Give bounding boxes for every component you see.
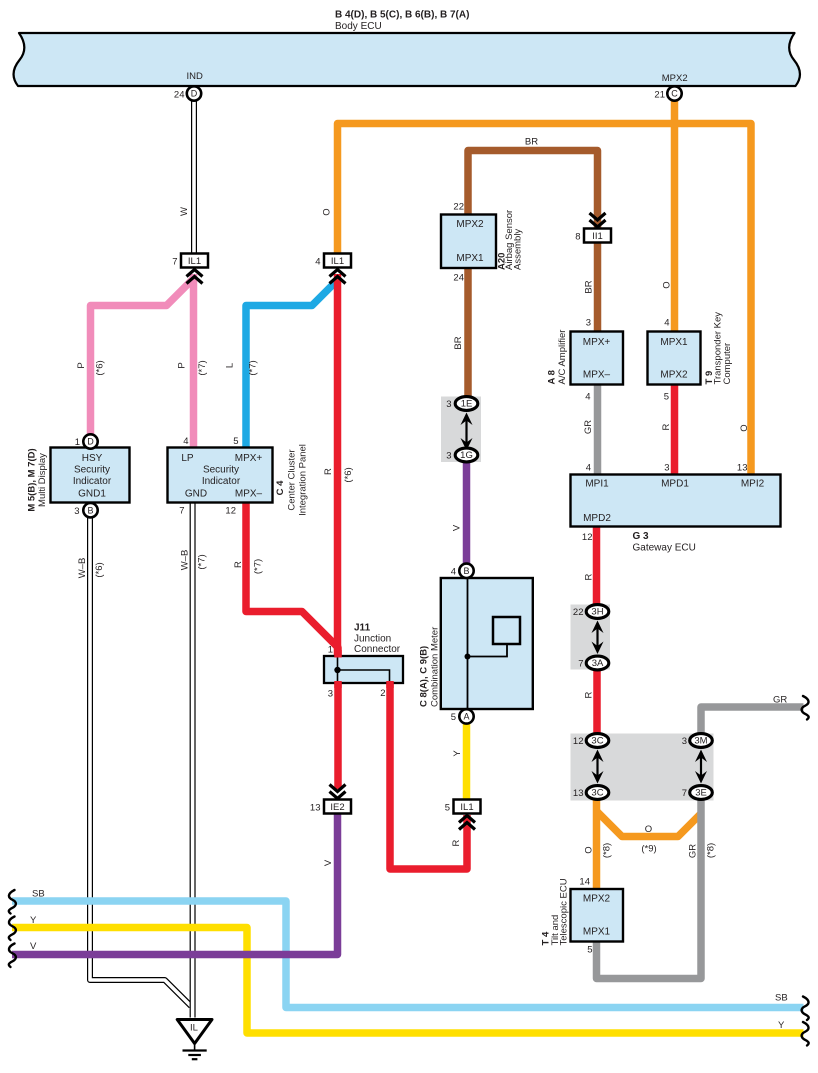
svg-text:5: 5 xyxy=(587,945,592,956)
svg-text:3E: 3E xyxy=(695,788,707,799)
svg-text:3: 3 xyxy=(446,399,451,410)
svg-text:BR: BR xyxy=(453,336,464,349)
svg-text:5: 5 xyxy=(451,712,456,723)
connector 3H pin 22 xyxy=(586,605,609,619)
svg-text:IL: IL xyxy=(190,1023,198,1034)
arrow between 3C and 3C xyxy=(596,756,598,778)
wire SB (left break across to bottom right break) xyxy=(12,901,804,1008)
svg-text:D: D xyxy=(87,437,94,447)
svg-text:J11: J11 xyxy=(354,623,371,634)
wire Y (left break across to bottom right break) xyxy=(12,928,804,1034)
svg-text:(*7): (*7) xyxy=(253,559,264,574)
wire R (IL1 to Junction Connector J11 pin 1) xyxy=(334,274,342,657)
wire V (IE2 down and across to left break) xyxy=(12,814,338,955)
svg-text:MPX+: MPX+ xyxy=(235,453,263,464)
svg-text:Security: Security xyxy=(203,465,239,476)
svg-text:21: 21 xyxy=(654,90,665,101)
svg-text:D: D xyxy=(191,89,198,99)
svg-text:SB: SB xyxy=(32,889,45,900)
wire O (branch to IL1 and Gateway ECU MPI2) xyxy=(338,124,752,475)
wire break SB right xyxy=(802,997,809,1021)
svg-text:A: A xyxy=(463,712,469,722)
svg-text:Junction: Junction xyxy=(354,634,391,645)
svg-text:R: R xyxy=(323,468,334,475)
wire R (Center Cluster MPX- to J11 pin 1) xyxy=(246,503,338,658)
component T 9 Transponder Key Computer xyxy=(648,332,701,385)
wire break GR right xyxy=(802,696,809,720)
svg-text:HSY: HSY xyxy=(82,453,103,464)
svg-text:R: R xyxy=(584,691,595,698)
pin 4 (B) of Combination Meter xyxy=(459,564,473,578)
svg-text:Combination Meter: Combination Meter xyxy=(430,627,441,707)
wire O (Body ECU MPX2 down to Transponder Key Computer) xyxy=(671,100,679,332)
svg-text:MPX2: MPX2 xyxy=(660,370,688,381)
gray connector block 3H/3A background xyxy=(571,605,611,670)
wire BR (Airbag Sensor MPX1 to connector 1E) xyxy=(464,268,472,398)
svg-text:II1: II1 xyxy=(592,231,603,242)
svg-text:3: 3 xyxy=(682,736,687,747)
gray connector block 1E/1G background xyxy=(441,397,481,463)
svg-text:GND1: GND1 xyxy=(78,489,106,500)
svg-text:Computer: Computer xyxy=(722,343,733,385)
svg-text:MPX2: MPX2 xyxy=(662,73,688,84)
wire R (3A to 3C) xyxy=(593,670,601,735)
svg-text:(*9): (*9) xyxy=(641,844,656,855)
svg-text:12: 12 xyxy=(225,506,236,517)
svg-text:22: 22 xyxy=(453,202,464,213)
svg-text:8: 8 xyxy=(575,232,580,243)
svg-text:Center Cluster: Center Cluster xyxy=(287,449,298,510)
svg-text:MPD2: MPD2 xyxy=(583,513,611,524)
svg-text:3M: 3M xyxy=(694,736,707,747)
svg-text:Gateway ECU: Gateway ECU xyxy=(633,543,696,554)
svg-text:L: L xyxy=(225,363,236,368)
svg-text:13: 13 xyxy=(573,788,584,799)
svg-text:Y: Y xyxy=(30,915,37,926)
svg-text:7: 7 xyxy=(682,788,687,799)
svg-text:GR: GR xyxy=(688,844,699,858)
svg-text:14: 14 xyxy=(579,877,590,888)
svg-text:IL1: IL1 xyxy=(188,256,201,267)
wire BR (Airbag Sensor MPX2 loop to II1) xyxy=(468,151,598,230)
svg-text:C 8(A), C 9(B): C 8(A), C 9(B) xyxy=(419,646,430,707)
svg-text:Integration Panel: Integration Panel xyxy=(298,444,309,516)
wire R (J11 pin 2 loop to IL1 below Combination Meter) xyxy=(390,682,467,869)
svg-text:R: R xyxy=(584,573,595,580)
component G 3 Gateway ECU xyxy=(571,475,781,527)
svg-text:Multi Display: Multi Display xyxy=(37,453,48,507)
connector 3M pin 3 xyxy=(690,734,713,748)
svg-text:(*6): (*6) xyxy=(95,360,106,375)
svg-text:LP: LP xyxy=(181,453,194,464)
component C 4 Center Cluster Integration Panel Security Indicator xyxy=(168,448,273,503)
svg-text:GR: GR xyxy=(773,695,787,706)
svg-text:1: 1 xyxy=(75,437,80,448)
component M 5(B) M 7(D) Multi Display Security Indicator xyxy=(51,448,130,503)
connector 1G pin 3 xyxy=(455,448,478,462)
svg-text:13: 13 xyxy=(310,803,321,814)
svg-text:Connector: Connector xyxy=(354,644,401,655)
arrow between 3H and 3A xyxy=(596,627,598,649)
svg-text:R: R xyxy=(233,561,244,568)
wire break V left xyxy=(9,944,16,968)
svg-text:(*8): (*8) xyxy=(706,843,717,858)
internal lamp block of Combination Meter xyxy=(493,617,520,644)
svg-text:Y: Y xyxy=(452,750,463,757)
wire GR (3E down and loop to Tilt ECU MPX1) xyxy=(597,799,702,978)
svg-text:5: 5 xyxy=(664,392,669,403)
svg-text:7: 7 xyxy=(172,257,177,268)
svg-text:V: V xyxy=(323,859,334,866)
svg-text:GR: GR xyxy=(583,420,594,434)
svg-text:3: 3 xyxy=(328,689,333,700)
svg-text:M 5(B), M 7(D): M 5(B), M 7(D) xyxy=(27,448,38,511)
component C 8(A) C 9(B) Combination Meter xyxy=(441,578,533,709)
svg-text:O: O xyxy=(645,824,652,835)
wire L (IL1 to Center Cluster MPX+) xyxy=(246,280,338,448)
svg-text:MPX1: MPX1 xyxy=(583,927,611,938)
svg-text:(*7): (*7) xyxy=(197,360,208,375)
svg-text:(*7): (*7) xyxy=(197,554,208,569)
svg-text:MPD1: MPD1 xyxy=(661,479,689,490)
svg-text:BR: BR xyxy=(525,137,538,148)
wire W-B (Center Cluster GND to ground IL) xyxy=(190,503,196,1018)
svg-text:7: 7 xyxy=(179,506,184,517)
svg-text:3C: 3C xyxy=(591,788,603,799)
svg-text:22: 22 xyxy=(573,607,584,618)
wire GR (right break to 3M) xyxy=(701,707,804,734)
connector 3C pin 12 xyxy=(586,734,609,748)
component T 4 Tilt and Telescopic ECU xyxy=(571,889,624,942)
connector 3C pin 13 xyxy=(586,786,609,800)
svg-text:24: 24 xyxy=(174,90,185,101)
svg-text:Telescopic ECU: Telescopic ECU xyxy=(559,878,570,945)
svg-text:4: 4 xyxy=(451,567,456,578)
svg-text:O: O xyxy=(322,208,333,215)
svg-text:W: W xyxy=(179,207,190,216)
svg-text:1G: 1G xyxy=(460,450,473,461)
svg-text:3: 3 xyxy=(74,506,79,517)
svg-text:3C: 3C xyxy=(591,736,603,747)
wire stub R at J11 pin 1 xyxy=(334,650,342,658)
svg-text:3A: 3A xyxy=(592,658,604,669)
svg-text:Security: Security xyxy=(74,465,110,476)
svg-text:MPX–: MPX– xyxy=(583,370,611,381)
wire GR (A/C Amplifier MPX- to Gateway ECU MPI1) xyxy=(594,385,602,475)
wire O (*9) (alternate link 3C to 3E) xyxy=(597,812,701,837)
pin 5 (A) of Combination Meter xyxy=(459,709,473,723)
svg-text:W–B: W–B xyxy=(180,550,191,571)
svg-text:13: 13 xyxy=(737,463,748,474)
svg-text:3: 3 xyxy=(664,463,669,474)
svg-text:A 8: A 8 xyxy=(547,370,558,384)
component A 8 A/C Amplifier xyxy=(571,332,624,385)
svg-text:4: 4 xyxy=(585,392,590,403)
wire break SB left xyxy=(9,890,16,914)
svg-text:Y: Y xyxy=(778,1020,785,1031)
connector 1E pin 3 xyxy=(455,397,478,411)
svg-text:O: O xyxy=(584,846,595,853)
svg-text:2: 2 xyxy=(380,688,385,699)
svg-text:B 4(D), B 5(C), B 6(B), B 7(A): B 4(D), B 5(C), B 6(B), B 7(A) xyxy=(335,10,469,21)
svg-text:(*8): (*8) xyxy=(602,843,613,858)
svg-text:MPX2: MPX2 xyxy=(456,219,484,230)
svg-text:BR: BR xyxy=(584,280,595,293)
ground IL xyxy=(177,1020,212,1044)
svg-text:MPX2: MPX2 xyxy=(583,894,611,905)
wire stub R at J11 pin 3 xyxy=(334,681,342,688)
svg-text:P: P xyxy=(76,362,87,368)
svg-text:1: 1 xyxy=(328,645,333,656)
connector 4 IL1 xyxy=(330,270,346,277)
arrow between 1E and 1G xyxy=(465,419,467,445)
svg-text:12: 12 xyxy=(573,736,584,747)
svg-text:MPX–: MPX– xyxy=(235,489,263,500)
svg-text:3H: 3H xyxy=(591,607,603,618)
arrow between 3M and 3E xyxy=(700,756,702,778)
pin 3 (B) of Multi Display xyxy=(83,503,97,517)
svg-text:3: 3 xyxy=(586,318,591,329)
svg-text:Body ECU: Body ECU xyxy=(335,21,382,32)
svg-text:R: R xyxy=(451,839,462,846)
wire P (IL1 to Security Indicator pin 1) xyxy=(91,277,196,435)
wire W (Body ECU IND to connector IL1) xyxy=(191,99,197,254)
svg-text:7: 7 xyxy=(578,659,583,670)
svg-text:A/C Amplifier: A/C Amplifier xyxy=(557,330,568,385)
svg-text:IL1: IL1 xyxy=(331,256,344,267)
svg-text:P: P xyxy=(177,362,188,368)
wire Y (Combination Meter pin 5 to IL1) xyxy=(463,724,471,800)
wire R (Gateway ECU MPD2 to 3H) xyxy=(593,527,601,606)
svg-text:MPX+: MPX+ xyxy=(583,337,611,348)
svg-text:(*6): (*6) xyxy=(94,562,105,577)
svg-text:4: 4 xyxy=(183,436,188,447)
svg-text:4: 4 xyxy=(586,463,591,474)
svg-text:GND: GND xyxy=(185,489,207,500)
connector 7 IL1 xyxy=(187,270,203,277)
svg-text:R: R xyxy=(661,423,672,430)
svg-text:G 3: G 3 xyxy=(633,531,650,542)
svg-text:IL1: IL1 xyxy=(460,802,473,813)
svg-text:Indicator: Indicator xyxy=(202,476,241,487)
svg-text:24: 24 xyxy=(453,273,464,284)
svg-text:MPI2: MPI2 xyxy=(741,479,765,490)
svg-text:O: O xyxy=(662,281,673,288)
svg-text:1E: 1E xyxy=(461,399,473,410)
gray connector block 3C/3M background xyxy=(571,734,714,801)
component A20 Airbag Sensor Assembly xyxy=(441,215,496,269)
svg-text:3: 3 xyxy=(446,451,451,462)
svg-text:Assembly: Assembly xyxy=(513,229,524,270)
wire R (J11 pin 3 to IE2) xyxy=(334,682,342,789)
component J11 Junction Connector xyxy=(324,656,403,683)
svg-text:MPX1: MPX1 xyxy=(660,337,688,348)
svg-text:MPX1: MPX1 xyxy=(456,253,484,264)
svg-text:IE2: IE2 xyxy=(330,802,344,813)
wire break Y right xyxy=(802,1022,809,1046)
svg-text:SB: SB xyxy=(775,993,788,1004)
svg-text:V: V xyxy=(452,524,463,531)
svg-text:MPI1: MPI1 xyxy=(585,479,609,490)
svg-text:B: B xyxy=(463,566,469,576)
svg-text:IND: IND xyxy=(187,71,204,82)
svg-text:4: 4 xyxy=(664,318,669,329)
svg-text:12: 12 xyxy=(582,532,593,543)
Body ECU bus bar U1 xyxy=(14,33,800,86)
connector 13 IE2 xyxy=(330,792,346,799)
wire P (IL1 to Center Cluster LP pin 4) xyxy=(190,274,198,448)
connector 3E pin 7 xyxy=(690,786,713,800)
internal circuit of Combination Meter xyxy=(467,578,469,709)
svg-text:C: C xyxy=(671,89,678,99)
connector 8 II1 xyxy=(590,220,606,227)
svg-text:(*7): (*7) xyxy=(248,360,259,375)
svg-text:W–B: W–B xyxy=(77,558,88,579)
svg-text:5: 5 xyxy=(445,803,450,814)
svg-text:O: O xyxy=(739,424,750,431)
pin 1 (D) of Multi Display xyxy=(83,434,97,448)
wire BR (II1 to A/C Amplifier MPX+) xyxy=(594,243,602,332)
pin 21 (C) of Body ECU MPX2 xyxy=(667,86,681,100)
connector 5 IL1 xyxy=(459,816,475,823)
wire V (1G to Combination Meter pin 4) xyxy=(463,462,471,564)
wire stub R at J11 pin 2 xyxy=(386,681,394,688)
svg-text:V: V xyxy=(30,941,37,952)
svg-text:5: 5 xyxy=(233,436,238,447)
wire W-B (Multi Display GND1 to ground) xyxy=(90,517,191,1006)
wire R (Transponder Key MPX2 to Gateway ECU MPD1) xyxy=(671,385,679,475)
svg-text:4: 4 xyxy=(315,257,320,268)
connector 3A pin 7 xyxy=(586,656,609,670)
svg-text:(*6): (*6) xyxy=(343,467,354,482)
svg-text:C 4: C 4 xyxy=(275,480,286,496)
svg-text:Indicator: Indicator xyxy=(73,476,112,487)
svg-text:B: B xyxy=(87,505,93,515)
wire O (3C to Tilt and Telescopic ECU MPX2) xyxy=(593,800,601,890)
wire break Y left xyxy=(9,917,16,941)
pin 24 (D) of Body ECU IND xyxy=(187,86,201,100)
